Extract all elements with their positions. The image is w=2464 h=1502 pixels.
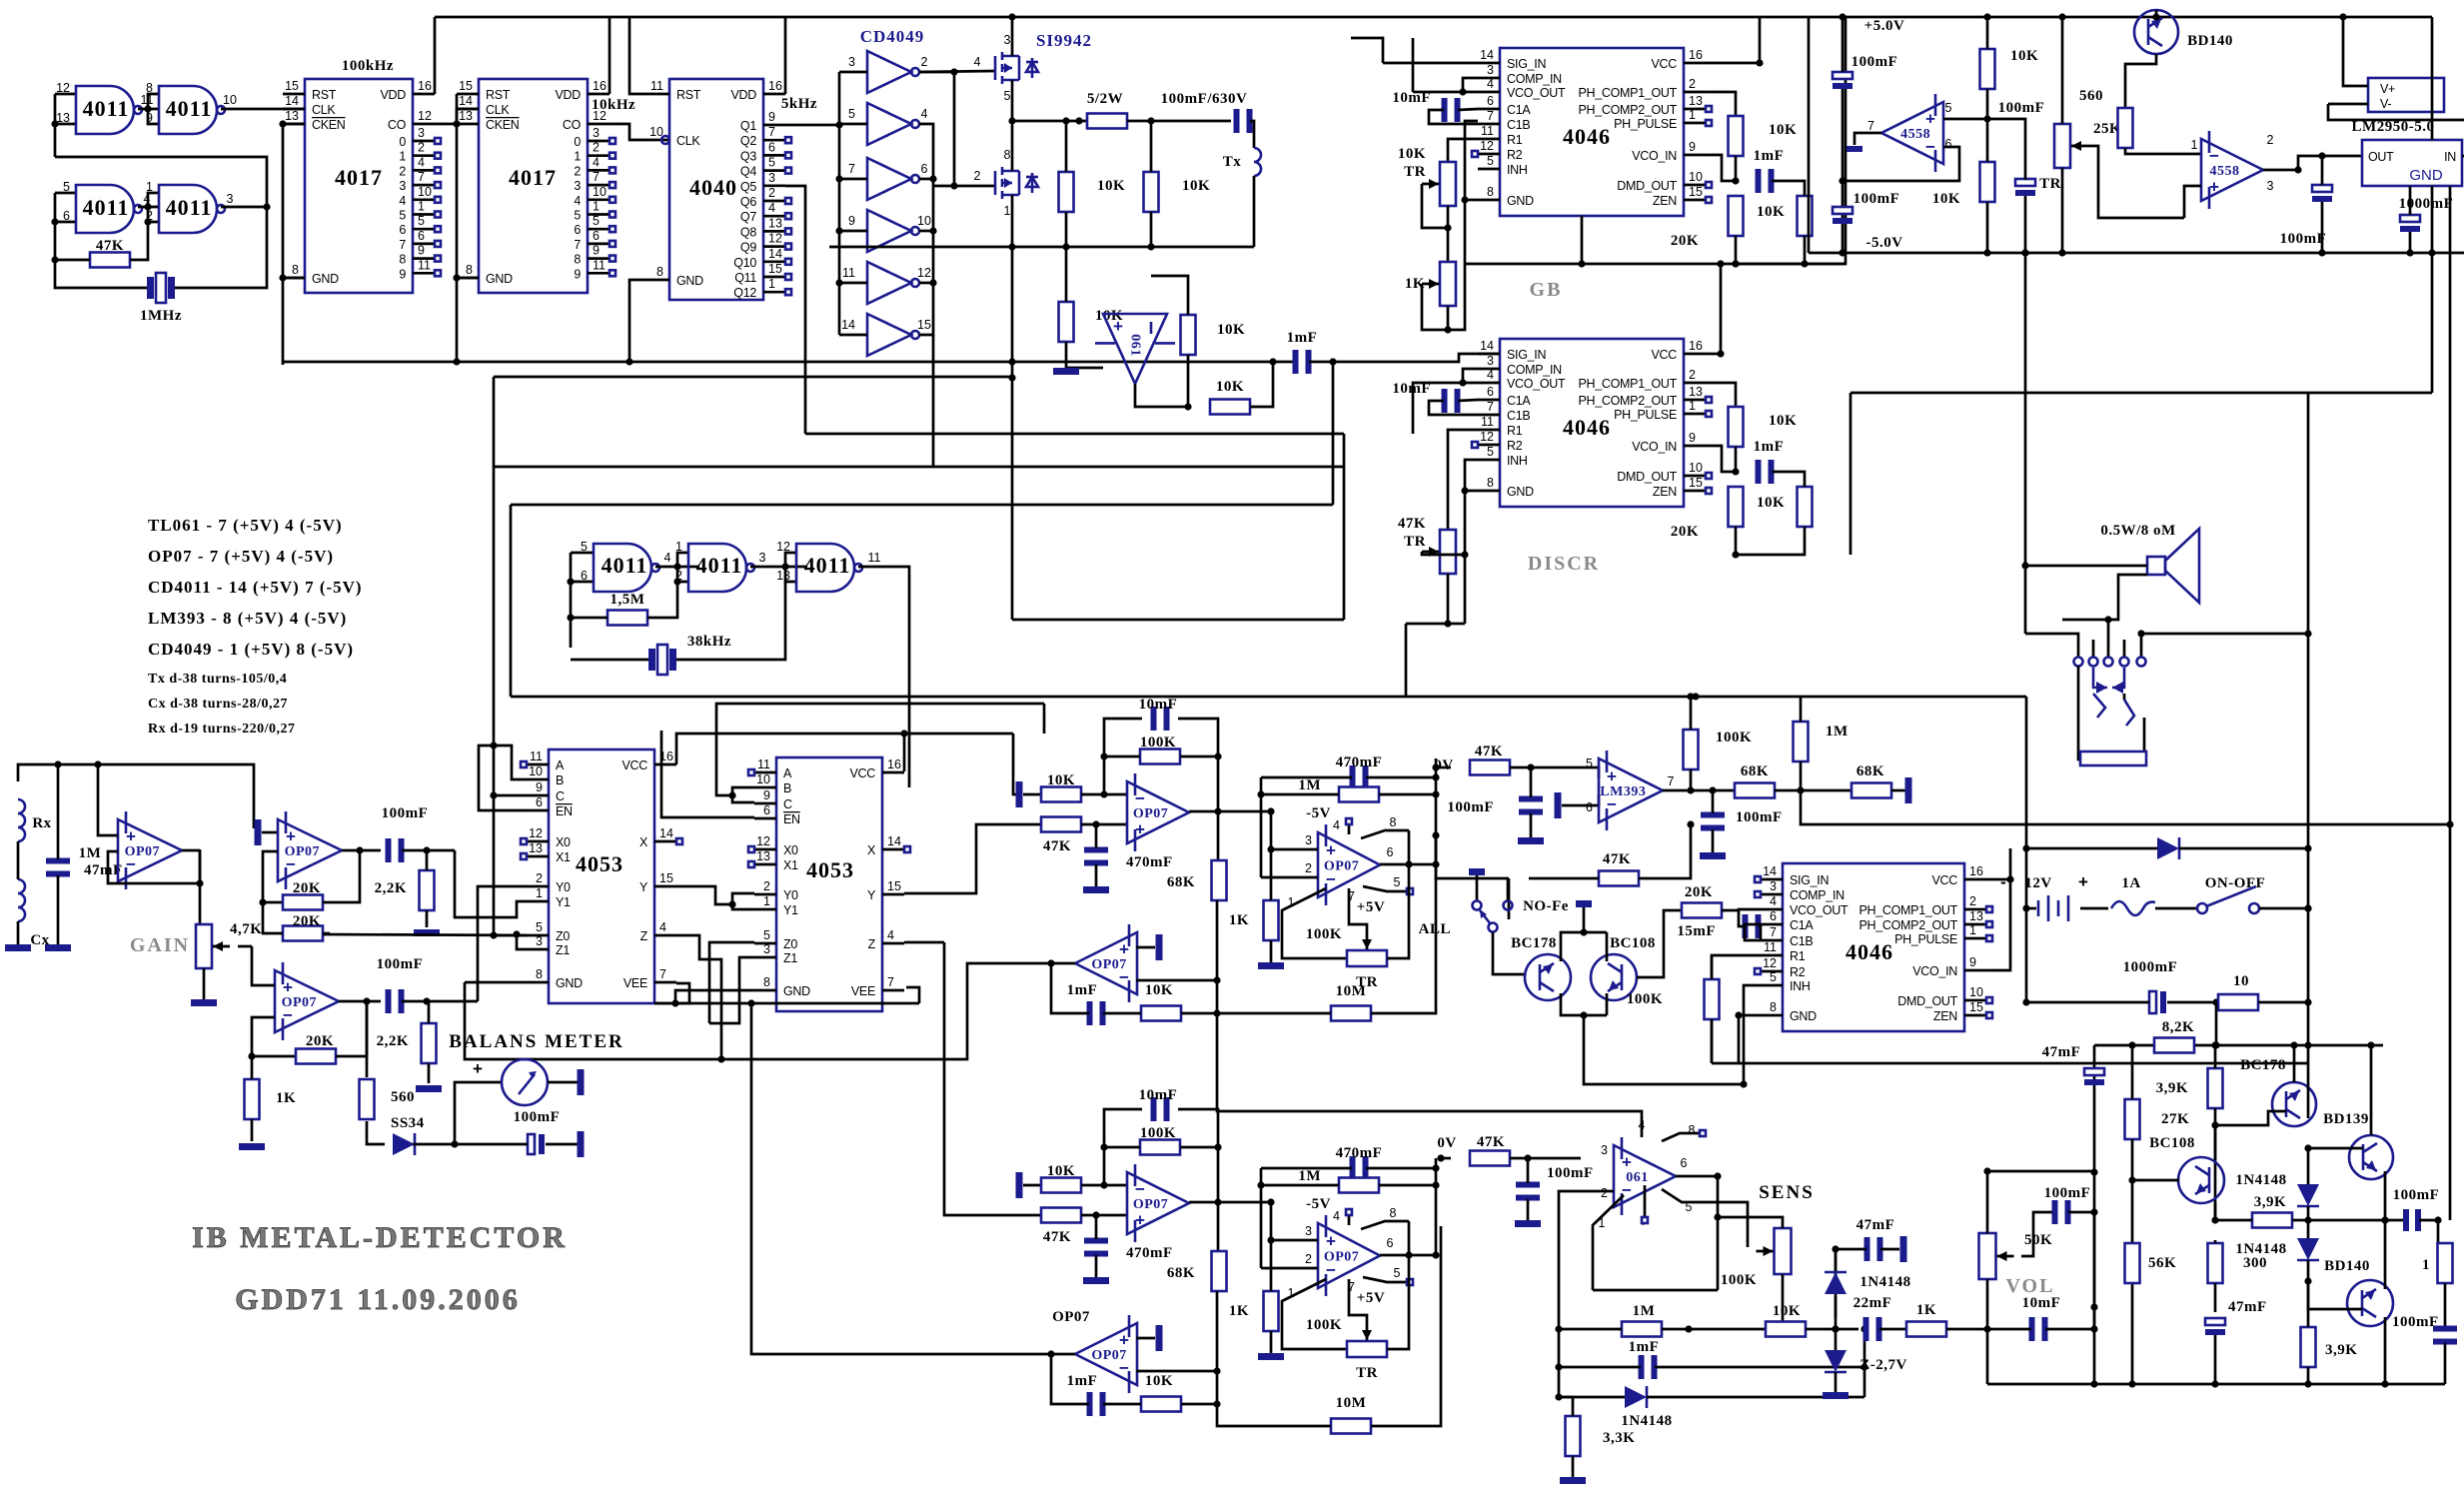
wire bbox=[2343, 249, 2432, 256]
text parts list bbox=[148, 516, 363, 737]
svg-text:5/2W: 5/2W bbox=[1087, 91, 1123, 107]
wire bbox=[2022, 904, 2108, 911]
svg-text:1K: 1K bbox=[276, 1090, 296, 1106]
svg-text:100mF: 100mF bbox=[1853, 191, 1900, 207]
svg-text:20K: 20K bbox=[1685, 884, 1713, 900]
wire bbox=[108, 849, 200, 883]
wire bbox=[248, 1017, 296, 1060]
svg-text:2: 2 bbox=[418, 141, 425, 155]
capacitor 10mF fb bbox=[1139, 697, 1178, 731]
wire GND U12 bbox=[465, 981, 527, 984]
svg-text:7: 7 bbox=[1487, 109, 1494, 123]
svg-text:10: 10 bbox=[593, 185, 607, 199]
svg-text:13: 13 bbox=[1689, 385, 1703, 399]
wire bbox=[1891, 789, 1905, 792]
svg-text:VOL: VOL bbox=[2006, 1275, 2055, 1297]
svg-text:4: 4 bbox=[664, 551, 671, 565]
wire bbox=[1722, 909, 1761, 910]
wire C1A C1B U8 bbox=[1429, 400, 1478, 415]
svg-text:VCC: VCC bbox=[622, 758, 648, 772]
resistor 47K mid bbox=[1599, 851, 1639, 886]
svg-text:3: 3 bbox=[1004, 33, 1011, 47]
wire bbox=[1801, 790, 2454, 828]
pot 100K TR bbox=[1347, 934, 1387, 966]
svg-text:+: + bbox=[473, 1059, 483, 1078]
svg-text:OP07: OP07 bbox=[282, 995, 317, 1010]
svg-text:2,2K: 2,2K bbox=[375, 880, 407, 896]
ground bbox=[239, 1143, 265, 1150]
wire bottom U13 bbox=[654, 987, 919, 1003]
capacitor 100mF bbox=[1833, 54, 1897, 89]
wire plus in bbox=[2184, 186, 2201, 218]
wire CLK U2 bbox=[0, 0, 1, 1]
op-amp LM393 U11 bbox=[1599, 751, 1663, 830]
svg-text:10: 10 bbox=[917, 214, 931, 228]
wire bbox=[57, 764, 60, 944]
node 2 bbox=[2267, 133, 2274, 147]
svg-text:100mF: 100mF bbox=[2392, 1314, 2439, 1330]
wire bbox=[478, 886, 527, 1001]
svg-text:47K: 47K bbox=[1043, 838, 1071, 854]
svg-text:5: 5 bbox=[593, 214, 600, 228]
diode 1N4148 a bbox=[2235, 1172, 2319, 1206]
svg-text:47mF: 47mF bbox=[2042, 1044, 2081, 1060]
coil Rx bbox=[18, 799, 52, 841]
wire bbox=[1559, 1397, 1573, 1477]
node labels bbox=[1288, 1196, 1401, 1306]
resistor 10K bbox=[1980, 48, 2039, 89]
wire bbox=[1136, 1337, 1155, 1340]
wire bbox=[1081, 1211, 1127, 1218]
svg-text:Z-2,7V: Z-2,7V bbox=[1859, 1357, 1907, 1373]
svg-text:1: 1 bbox=[399, 150, 406, 164]
wire pin7 U18 bbox=[1642, 1185, 1648, 1223]
wire vcc drop U8 bbox=[1717, 264, 1724, 358]
IC 4046 U8 DISCR bbox=[1472, 339, 1712, 507]
resistor 3,9K c bbox=[2301, 1327, 2358, 1367]
capacitor 100mF ch2 bbox=[1516, 1165, 1594, 1201]
capacitor 1mF b bbox=[1629, 1339, 1660, 1379]
resistor 10K U7b bbox=[1757, 196, 1813, 236]
svg-text:LM2950-5.0: LM2950-5.0 bbox=[2352, 119, 2435, 135]
svg-text:15: 15 bbox=[1689, 185, 1703, 199]
wire B U12 bbox=[490, 742, 527, 779]
wire bbox=[18, 760, 254, 828]
wire bbox=[1151, 276, 1188, 407]
svg-text:560: 560 bbox=[2079, 88, 2103, 104]
svg-text:VCO_OUT: VCO_OUT bbox=[1790, 903, 1848, 917]
coil Cx bbox=[18, 879, 50, 948]
svg-text:4: 4 bbox=[768, 201, 775, 215]
svg-text:PH_COMP1_OUT: PH_COMP1_OUT bbox=[1578, 377, 1677, 391]
svg-text:470mF: 470mF bbox=[1336, 1145, 1383, 1161]
svg-text:BD140: BD140 bbox=[2187, 33, 2233, 49]
svg-text:100K: 100K bbox=[1140, 735, 1176, 751]
svg-text:C1A: C1A bbox=[1507, 103, 1531, 117]
wire bbox=[2090, 1045, 2097, 1384]
wire bbox=[1261, 1164, 1440, 1171]
wire out a bbox=[1189, 807, 1222, 814]
svg-text:9: 9 bbox=[574, 267, 581, 281]
svg-text:0: 0 bbox=[399, 135, 406, 149]
wire bbox=[1584, 1015, 1744, 1084]
ground bbox=[1083, 886, 1109, 893]
svg-text:VCO_IN: VCO_IN bbox=[1632, 440, 1677, 454]
svg-text:4558: 4558 bbox=[2210, 164, 2240, 179]
svg-text:7: 7 bbox=[418, 170, 425, 184]
svg-text:14: 14 bbox=[659, 826, 673, 840]
svg-text:470mF: 470mF bbox=[1126, 1245, 1173, 1261]
wire pin4 col bbox=[1217, 1013, 1642, 1137]
svg-text:8,2K: 8,2K bbox=[2162, 1019, 2194, 1035]
resistor 300 bbox=[2208, 1243, 2268, 1283]
svg-text:100mF: 100mF bbox=[1998, 100, 2045, 116]
wire ch2 0V bbox=[1437, 1154, 1451, 1161]
wire INH U7 bbox=[1465, 121, 1478, 200]
resistor 10K U8b bbox=[1757, 487, 1813, 527]
wire c Q5 bbox=[2214, 1125, 2217, 1159]
svg-text:12: 12 bbox=[917, 266, 931, 280]
svg-text:8: 8 bbox=[146, 81, 153, 95]
wire to U12 bbox=[323, 934, 527, 935]
svg-text:CLK: CLK bbox=[676, 134, 700, 148]
capacitor 470mF bbox=[1084, 1238, 1173, 1262]
svg-text:8: 8 bbox=[1487, 476, 1494, 490]
svg-text:10: 10 bbox=[223, 93, 237, 107]
wire bbox=[1555, 1363, 1867, 1370]
svg-text:15: 15 bbox=[768, 262, 782, 276]
svg-text:1M: 1M bbox=[1298, 1168, 1321, 1184]
capacitor 100mF bbox=[2280, 185, 2332, 247]
IC 4017 U2 bbox=[283, 58, 441, 293]
svg-text:6: 6 bbox=[399, 223, 406, 237]
svg-text:IB METAL-DETECTOR: IB METAL-DETECTOR bbox=[192, 1221, 568, 1254]
label 10M ch2 bbox=[1336, 1395, 1367, 1411]
4011 gate U9C bbox=[796, 544, 862, 592]
svg-text:6: 6 bbox=[1487, 385, 1494, 399]
node 5 bbox=[1945, 101, 1952, 115]
wire bbox=[567, 578, 680, 621]
label 5kHz bbox=[781, 96, 817, 112]
capacitor 470mF bbox=[1084, 847, 1173, 871]
wire pin4 bbox=[1346, 818, 1352, 834]
svg-text:-5V: -5V bbox=[1306, 805, 1331, 821]
wire bbox=[51, 193, 76, 264]
wire out U10A bbox=[1854, 133, 1881, 145]
node 11 bbox=[868, 551, 881, 565]
ground bbox=[414, 929, 440, 936]
ground bbox=[1258, 962, 1284, 969]
wire bbox=[494, 376, 1012, 379]
wire COMP_IN U7 bbox=[1459, 78, 1478, 96]
resistor 1M fb bbox=[1298, 777, 1379, 802]
svg-text:9: 9 bbox=[1969, 955, 1976, 969]
capacitor 47mF b bbox=[2205, 1299, 2267, 1335]
wire VCO_IN U8 bbox=[1706, 446, 1736, 472]
svg-text:+5V: +5V bbox=[1357, 899, 1385, 915]
svg-text:GND: GND bbox=[2409, 167, 2443, 184]
svg-text:16: 16 bbox=[418, 79, 432, 93]
svg-text:2: 2 bbox=[974, 169, 981, 183]
wire bbox=[252, 946, 275, 985]
wire Y1 U12 bbox=[0, 0, 1, 1]
transistor BD139 Q6 bbox=[2323, 1111, 2393, 1179]
svg-text:5: 5 bbox=[399, 209, 406, 223]
svg-text:14: 14 bbox=[1763, 864, 1777, 878]
capacitor 100mF bbox=[1833, 191, 1899, 224]
wire bbox=[2431, 253, 2434, 393]
svg-text:GND: GND bbox=[1790, 1009, 1817, 1023]
wire e Q4 bbox=[2307, 1045, 2310, 1118]
wire right rail bbox=[2431, 17, 2434, 140]
svg-text:4017: 4017 bbox=[335, 165, 383, 190]
svg-text:SS34: SS34 bbox=[391, 1115, 425, 1131]
wire bbox=[1422, 552, 1465, 628]
svg-text:8: 8 bbox=[656, 265, 663, 279]
resistor 47K bbox=[90, 238, 130, 268]
transistor BC108 Q5 bbox=[2149, 1135, 2224, 1203]
svg-text:4011: 4011 bbox=[83, 195, 130, 220]
svg-text:3: 3 bbox=[1601, 1143, 1608, 1157]
wire bbox=[1432, 763, 1451, 770]
svg-text:4: 4 bbox=[974, 55, 981, 69]
svg-text:1M: 1M bbox=[1633, 1303, 1656, 1319]
node 8 bbox=[146, 81, 153, 95]
wire 10M ch2 bbox=[1217, 1226, 1441, 1426]
svg-text:C: C bbox=[556, 789, 565, 803]
capacitor 1mF U7 bbox=[1754, 148, 1785, 193]
op-amp OP07 a bbox=[1127, 1164, 1189, 1242]
resistor 68K bbox=[1851, 763, 1891, 798]
wire bbox=[1422, 184, 1452, 262]
svg-text:5: 5 bbox=[1394, 1266, 1401, 1280]
wire bbox=[2108, 575, 2147, 620]
svg-text:3: 3 bbox=[1487, 63, 1494, 77]
svg-text:ON-OFF: ON-OFF bbox=[2205, 875, 2266, 891]
svg-text:CD4049: CD4049 bbox=[860, 27, 925, 46]
wire left drop bbox=[1808, 17, 1811, 253]
node 6 bbox=[1586, 800, 1593, 814]
svg-text:10K: 10K bbox=[1757, 204, 1785, 220]
wire bbox=[571, 582, 785, 660]
resistor 2,2K meter bbox=[377, 1023, 437, 1063]
ground bbox=[1258, 1353, 1284, 1360]
label battery bbox=[2000, 872, 2088, 891]
svg-text:5: 5 bbox=[536, 920, 543, 934]
label NO-Fe bbox=[1523, 898, 1569, 914]
wire Z1 U12 bbox=[513, 930, 527, 949]
wire base Q1 bbox=[2125, 54, 2156, 108]
svg-text:12: 12 bbox=[418, 109, 432, 123]
wire 0V col bbox=[1435, 1158, 1438, 1255]
svg-text:+: + bbox=[1326, 841, 1336, 860]
svg-text:10mF: 10mF bbox=[1139, 1087, 1178, 1103]
wire minus rail bbox=[1809, 249, 2343, 256]
label 1M bbox=[79, 845, 102, 861]
wire 4011 out bbox=[858, 567, 909, 787]
svg-text:4558: 4558 bbox=[1900, 127, 1930, 142]
resistor 10K pull1 bbox=[1059, 172, 1126, 212]
wire bbox=[1216, 1291, 1219, 1404]
svg-text:20K: 20K bbox=[293, 913, 321, 929]
svg-text:10K: 10K bbox=[1773, 1303, 1801, 1319]
wire Q1-bus bbox=[785, 124, 839, 127]
transistor BC108 Q3 bbox=[1591, 935, 1656, 1000]
resistor 1M fb bbox=[1298, 1168, 1379, 1193]
wire bbox=[2304, 1281, 2311, 1388]
wire bbox=[221, 203, 271, 210]
svg-text:OP07: OP07 bbox=[1052, 1309, 1090, 1325]
svg-text:2: 2 bbox=[1601, 1186, 1608, 1200]
svg-text:7: 7 bbox=[659, 967, 666, 981]
IC 4053 U12 bbox=[521, 750, 682, 1003]
wire bbox=[2155, 907, 2197, 910]
diode 1N4148 c bbox=[1621, 1386, 1672, 1429]
resistor 1K bbox=[1229, 1291, 1279, 1331]
wire in c bbox=[1047, 1350, 1075, 1357]
svg-text:1mF: 1mF bbox=[1754, 148, 1785, 164]
svg-text:PH_PULSE: PH_PULSE bbox=[1614, 408, 1677, 422]
diode zener Z-2,7V bbox=[1825, 1350, 1907, 1373]
svg-text:14: 14 bbox=[887, 834, 901, 848]
svg-text:3: 3 bbox=[227, 192, 234, 206]
resistor 47K in bbox=[1041, 817, 1081, 855]
ground bbox=[1053, 368, 1079, 375]
svg-text:5: 5 bbox=[1770, 970, 1777, 984]
svg-text:100mF: 100mF bbox=[2393, 1187, 2440, 1203]
node 13 bbox=[776, 569, 790, 583]
svg-text:10K: 10K bbox=[1769, 413, 1797, 429]
svg-text:6: 6 bbox=[768, 140, 775, 154]
svg-text:10K: 10K bbox=[1182, 178, 1210, 194]
wire c Q6 bbox=[2367, 1041, 2374, 1135]
svg-text:DMD_OUT: DMD_OUT bbox=[1617, 179, 1677, 193]
wire bbox=[1507, 878, 1510, 900]
potentiometer VOL 50K bbox=[1979, 1232, 2053, 1279]
wire bbox=[55, 157, 267, 207]
svg-text:GND: GND bbox=[486, 272, 513, 286]
svg-text:+: + bbox=[126, 827, 136, 846]
jack arms bbox=[2093, 668, 2134, 726]
wire GND U2 bbox=[279, 274, 305, 365]
wire VCC U8 bbox=[1706, 353, 1721, 356]
svg-text:VCC: VCC bbox=[850, 766, 876, 780]
wire bbox=[263, 902, 283, 933]
svg-text:100mF: 100mF bbox=[2044, 1185, 2091, 1201]
wire bbox=[203, 968, 206, 999]
svg-text:R1: R1 bbox=[1790, 949, 1806, 963]
node 12 bbox=[776, 540, 790, 554]
svg-text:20K: 20K bbox=[306, 1033, 334, 1049]
wire VDD U2 bbox=[434, 17, 437, 94]
svg-text:15: 15 bbox=[917, 318, 931, 332]
svg-text:6: 6 bbox=[63, 209, 70, 223]
wire bbox=[465, 982, 600, 1059]
capacitor 100mF bbox=[514, 1109, 561, 1154]
wire bbox=[323, 850, 360, 902]
wire pin1 bbox=[1282, 1279, 1347, 1349]
svg-text:DMD_OUT: DMD_OUT bbox=[1897, 994, 1957, 1008]
svg-text:C1B: C1B bbox=[1790, 934, 1813, 948]
wire bbox=[1405, 624, 1408, 697]
wire ch1 47K feed bbox=[1013, 734, 1016, 794]
resistor 27K bbox=[2125, 1099, 2190, 1139]
wire SIG_IN U8 bbox=[1478, 353, 1500, 356]
svg-text:8: 8 bbox=[1689, 1123, 1696, 1137]
svg-text:5: 5 bbox=[574, 209, 581, 223]
capacitor 47nF bbox=[46, 858, 123, 879]
op-amp OP07 c bbox=[1075, 924, 1137, 1002]
wire bbox=[2058, 13, 2065, 256]
svg-text:4: 4 bbox=[593, 155, 600, 169]
svg-text:10K: 10K bbox=[1757, 495, 1785, 511]
svg-text:47K: 47K bbox=[1398, 516, 1426, 532]
wire bbox=[144, 94, 159, 124]
svg-text:14: 14 bbox=[285, 94, 299, 108]
wire bbox=[2328, 104, 2432, 120]
svg-text:2: 2 bbox=[536, 871, 543, 885]
wire R1 U17 bbox=[1712, 955, 1761, 1063]
svg-text:+: + bbox=[1135, 1210, 1145, 1229]
resistor 10K pull2 bbox=[1144, 172, 1211, 212]
svg-text:4046: 4046 bbox=[1563, 415, 1611, 440]
svg-text:A: A bbox=[556, 758, 565, 772]
wire bbox=[1987, 1325, 2098, 1332]
resistor 20K bbox=[283, 913, 323, 941]
svg-text:4: 4 bbox=[418, 155, 425, 169]
label +5.0V bbox=[1864, 18, 1905, 34]
coil Tx bbox=[1223, 148, 1261, 176]
battery BT1 bbox=[2038, 895, 2068, 921]
svg-text:Q11: Q11 bbox=[734, 271, 756, 285]
svg-text:2: 2 bbox=[1305, 861, 1312, 875]
wire bbox=[323, 932, 330, 935]
resistor 100K bbox=[1627, 979, 1720, 1019]
svg-text:+: + bbox=[1326, 1232, 1336, 1251]
svg-text:1mF: 1mF bbox=[1754, 439, 1785, 455]
op-amp OP07 U14 bbox=[118, 811, 182, 889]
resistor 10K vol bbox=[1766, 1303, 1806, 1337]
svg-text:BD139: BD139 bbox=[2323, 1111, 2369, 1127]
wire plus in bbox=[1267, 1236, 1318, 1243]
resistor 3,3K bbox=[1566, 1416, 1636, 1456]
wire C U12 bbox=[490, 791, 527, 798]
svg-text:Y1: Y1 bbox=[783, 903, 798, 917]
svg-text:1N4148: 1N4148 bbox=[1621, 1413, 1672, 1429]
node 1 bbox=[2191, 138, 2198, 152]
svg-text:EN: EN bbox=[556, 804, 573, 818]
wire bbox=[366, 1001, 369, 1077]
svg-text:13: 13 bbox=[1969, 909, 1983, 923]
svg-text:10K: 10K bbox=[1097, 178, 1125, 194]
wire pin5 bbox=[1363, 1277, 1413, 1285]
node 1 bbox=[675, 540, 682, 554]
label plus bbox=[473, 1059, 483, 1078]
pot 100K TR bbox=[1347, 1325, 1387, 1357]
wire bbox=[138, 193, 159, 222]
wire bbox=[2339, 13, 2368, 86]
wire EN U12 bbox=[479, 746, 527, 810]
wire fb left bbox=[1100, 719, 1142, 794]
svg-text:ZEN: ZEN bbox=[1933, 1009, 1957, 1023]
svg-text:6: 6 bbox=[1681, 1156, 1688, 1170]
wire collectors bbox=[1561, 993, 1607, 1019]
svg-text:1: 1 bbox=[675, 540, 682, 554]
svg-text:7: 7 bbox=[1487, 400, 1494, 414]
svg-text:20K: 20K bbox=[1671, 233, 1699, 249]
svg-text:1: 1 bbox=[574, 150, 581, 164]
wire bbox=[1062, 117, 1069, 250]
